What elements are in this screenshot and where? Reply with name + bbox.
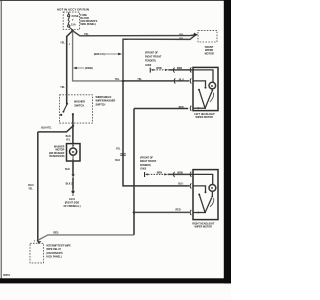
- svg-text:BRN: BRN: [157, 172, 162, 175]
- svg-text:KICK PANEL): KICK PANEL): [46, 255, 61, 258]
- svg-text:7: 7: [72, 18, 74, 22]
- svg-text:G906: G906: [145, 64, 152, 67]
- svg-text:WINDSHIELD: WINDSHIELD: [96, 96, 112, 99]
- svg-text:FUSE: FUSE: [72, 14, 79, 18]
- svg-text:WASHER: WASHER: [74, 101, 85, 104]
- svg-text:WIPER MOTOR: WIPER MOTOR: [195, 226, 213, 229]
- svg-text:BLK/: BLK/: [66, 136, 72, 138]
- svg-text:YEL: YEL: [115, 78, 120, 81]
- washer switch contacts and blade: [66, 103, 68, 105]
- svg-text:2: 2: [69, 44, 71, 46]
- wire BLU/YEL down to relay: [37, 132, 39, 241]
- washer motor box: [67, 144, 81, 161]
- right headlamp wiper motor box: [193, 170, 218, 220]
- windshield washer switch (dashed box): [60, 95, 93, 123]
- intermittent wipe relay (dashed box): [30, 243, 44, 263]
- svg-text:RED: RED: [176, 208, 181, 211]
- connector ( mid BRN right: [173, 172, 174, 177]
- svg-text:HOT IN ACCY OR RUN: HOT IN ACCY OR RUN: [57, 7, 89, 11]
- node: RED junction: [133, 211, 136, 214]
- wire RED to right headlamp wiper motor: [134, 211, 190, 213]
- svg-text:BRN: BRN: [177, 67, 182, 70]
- connectors ( at left motor box edge: [190, 67, 191, 111]
- svg-text:SIDE PANEL): SIDE PANEL): [80, 23, 96, 26]
- svg-text:RESERVOIR): RESERVOIR): [50, 155, 65, 158]
- ground G101: [72, 190, 75, 193]
- svg-text:M: M: [211, 84, 213, 88]
- svg-text:(FRONT OF: (FRONT OF: [145, 52, 159, 55]
- connector ( into left motor BLU wire: [174, 78, 175, 83]
- node: fuse output junction: [71, 29, 74, 32]
- connector arrowhead into front wiper motor: [194, 33, 198, 37]
- svg-text:BLU/: BLU/: [28, 184, 34, 187]
- svg-text:WIPER MOTOR: WIPER MOTOR: [196, 116, 214, 119]
- svg-text:(FRONT OF: (FRONT OF: [140, 156, 154, 159]
- svg-text:BLK: BLK: [65, 168, 70, 171]
- svg-text:BLU: BLU: [179, 79, 184, 82]
- svg-text:BRN: BRN: [177, 172, 182, 175]
- wire RED from relay to headlamp wiper motors: [38, 235, 134, 241]
- wire RED to left headlamp wiper motor: [134, 108, 188, 110]
- svg-text:SWITCH: SWITCH: [74, 105, 84, 108]
- svg-text:FENDER): FENDER): [145, 59, 156, 62]
- svg-text:YEL: YEL: [60, 42, 65, 45]
- wire BRN dashed to left motor: [154, 69, 165, 71]
- svg-text:600TA: 600TA: [3, 274, 10, 277]
- svg-text:YEL: YEL: [28, 188, 33, 191]
- wire from washer switch to washer motor: [72, 114, 74, 143]
- left motor internals: [193, 70, 216, 108]
- svg-text:MOTOR: MOTOR: [205, 52, 214, 55]
- svg-text:YEL: YEL: [116, 148, 121, 151]
- svg-text:BLU: BLU: [178, 182, 183, 185]
- wire ID callout (300B): [76, 67, 84, 69]
- svg-text:WIPER/WASHER: WIPER/WASHER: [96, 100, 116, 103]
- svg-text:(300B): (300B): [85, 66, 93, 70]
- right motor internals: [193, 174, 216, 212]
- svg-text:BRN: BRN: [156, 67, 161, 70]
- svg-text:YEL: YEL: [60, 86, 65, 89]
- node: relay pin junction: [37, 239, 39, 241]
- svg-text:FENDER): FENDER): [140, 164, 151, 167]
- wire YEL feed down-right (gray vertical from fuse junction): [73, 31, 173, 81]
- fuse F7 15A: [68, 12, 73, 30]
- svg-text:(B98 AU): (B98 AU): [94, 52, 105, 56]
- node: junction YEL feed: [122, 80, 125, 83]
- svg-text:BLK 2: BLK 2: [66, 183, 74, 186]
- svg-text:BLK/YEL: BLK/YEL: [41, 127, 52, 130]
- svg-text:(ON DRIVER'S: (ON DRIVER'S: [46, 252, 63, 255]
- wire RED vertical riser: [133, 109, 135, 235]
- svg-text:YEL: YEL: [66, 139, 71, 141]
- svg-text:INTERMITTENT WIPE: INTERMITTENT WIPE: [46, 245, 71, 248]
- connector (half arrow): [72, 174, 75, 177]
- wire YEL from fuse to washer switch: [67, 31, 73, 104]
- wire YEL lower to front wiper motor (corner at x123): [123, 35, 195, 81]
- svg-text:3: 3: [34, 240, 36, 242]
- svg-text:YEL: YEL: [137, 78, 142, 81]
- wire YEL upper to front wiper motor: [73, 31, 195, 36]
- svg-text:SWITCH: SWITCH: [96, 103, 106, 106]
- washer motor M symbol: [70, 148, 77, 155]
- connector ( mid BRN: [173, 68, 174, 73]
- wire BLK from washer motor to ground: [72, 161, 74, 174]
- wire BLK/YEL to left vertical: [38, 126, 73, 132]
- svg-text:M: M: [211, 186, 213, 190]
- fuse block dashed box: [63, 12, 79, 29]
- connectors ( at right motor box edge: [190, 172, 191, 215]
- svg-text:RIGHT FRONT: RIGHT FRONT: [140, 160, 157, 163]
- svg-text:RED: RED: [179, 106, 184, 109]
- wire YEL horizontal to left headlamp motor (right of junction): [123, 80, 189, 82]
- svg-text:OF FIREWALL): OF FIREWALL): [64, 205, 81, 208]
- ground G906 (left motor BRN): [150, 68, 151, 73]
- svg-text:YEL: YEL: [179, 34, 184, 36]
- svg-text:15A: 15A: [71, 22, 76, 26]
- svg-text:YEL: YEL: [179, 38, 184, 40]
- wire BRN dashed to right motor: [148, 173, 164, 175]
- svg-text:RIGHT FRONT: RIGHT FRONT: [145, 55, 162, 58]
- inline connector on YEL/BLK wire: [120, 152, 126, 155]
- svg-text:WIPE RELAY: WIPE RELAY: [46, 248, 61, 251]
- svg-text:G905: G905: [140, 167, 147, 170]
- ground G905 (right motor BRN): [144, 172, 145, 177]
- svg-text:BLK: BLK: [115, 159, 120, 162]
- svg-text:RED: RED: [53, 232, 58, 235]
- front wiper motor (dashed box): [198, 30, 217, 42]
- left headlamp wiper motor box: [193, 67, 218, 110]
- border frame (page edges): [0, 0, 231, 2]
- wire YEL/BLK down from junction to right motor BLU: [123, 81, 190, 186]
- node: junction below switch: [72, 125, 74, 127]
- connector arrow into relay: [37, 241, 41, 243]
- svg-text:YEL: YEL: [84, 33, 89, 36]
- svg-text:M: M: [72, 150, 75, 154]
